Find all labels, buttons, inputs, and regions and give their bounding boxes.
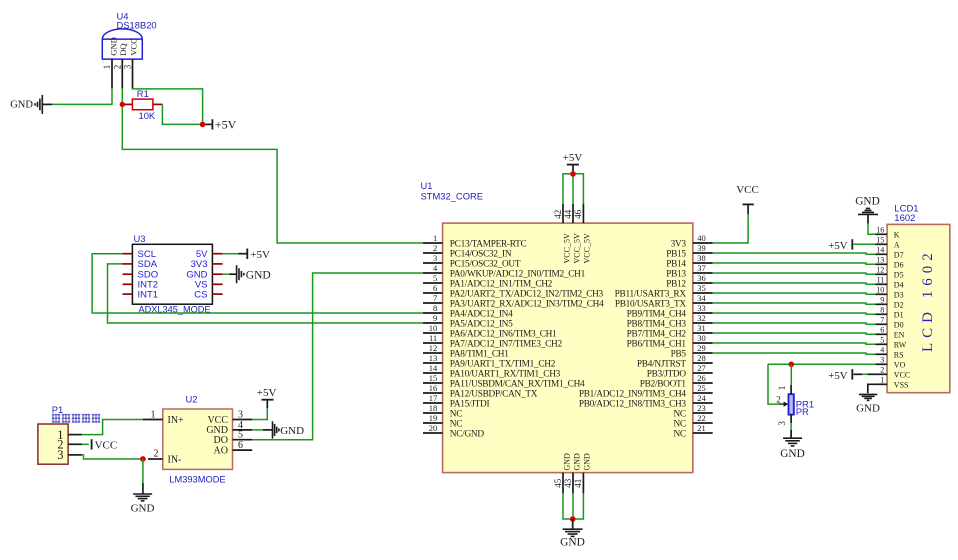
wire U2 DO to U1 pin4 PA0 bbox=[252, 273, 423, 440]
svg-text:GND: GND bbox=[856, 403, 880, 415]
U4 pin 3 bbox=[132, 59, 134, 89]
wire U1 bottom pins to GND rail bbox=[563, 493, 583, 519]
svg-text:VCC: VCC bbox=[894, 370, 910, 379]
U1 pin 36 stub bbox=[693, 282, 713, 284]
svg-text:PA9/UART1_TX/TIM1_CH2: PA9/UART1_TX/TIM1_CH2 bbox=[450, 359, 556, 369]
svg-text:3V3: 3V3 bbox=[671, 239, 687, 249]
svg-text:NC/GND: NC/GND bbox=[450, 429, 485, 439]
LCD1 pin 2 stub bbox=[876, 373, 888, 375]
svg-text:PC14/OSC32_IN: PC14/OSC32_IN bbox=[450, 249, 512, 259]
svg-text:P1: P1 bbox=[52, 404, 63, 415]
svg-text:GND: GND bbox=[780, 448, 804, 460]
U1 pin 35 stub bbox=[693, 292, 713, 294]
U4 pin 1 bbox=[111, 59, 113, 89]
wire U1 pin36 to LCD pin11 bbox=[713, 283, 876, 284]
svg-text:9: 9 bbox=[880, 296, 884, 305]
ground GND (below PR1) bbox=[780, 430, 804, 460]
power VCC (top right) bbox=[736, 184, 759, 214]
svg-text:8: 8 bbox=[880, 306, 884, 315]
svg-text:PB6/TIM4_CH1: PB6/TIM4_CH1 bbox=[627, 339, 687, 349]
svg-text:37: 37 bbox=[697, 263, 706, 273]
junction GND bottom bbox=[570, 516, 576, 522]
svg-text:1: 1 bbox=[777, 386, 787, 391]
svg-text:GND: GND bbox=[855, 196, 879, 208]
svg-text:VCC: VCC bbox=[95, 440, 118, 452]
svg-text:INT1: INT1 bbox=[138, 289, 159, 300]
svg-text:+5V: +5V bbox=[828, 370, 847, 382]
wire VO junction down to PR1 pin1 bbox=[790, 364, 792, 385]
svg-text:RW: RW bbox=[894, 340, 907, 349]
svg-text:40: 40 bbox=[697, 233, 706, 243]
svg-text:14: 14 bbox=[429, 363, 438, 373]
svg-text:R1: R1 bbox=[137, 88, 149, 99]
PR1 pin 1 bbox=[790, 385, 792, 394]
wire R1 right to +5V junction bbox=[162, 104, 200, 124]
LCD1 pin 9 stub bbox=[876, 303, 888, 305]
ground GND (below U1) bbox=[560, 519, 585, 549]
svg-text:VCC_5V: VCC_5V bbox=[562, 233, 571, 263]
svg-text:D2: D2 bbox=[894, 300, 904, 309]
svg-text:33: 33 bbox=[697, 303, 706, 313]
junction DQ / R1 bbox=[120, 102, 125, 107]
U3 pin SDO stub bbox=[123, 273, 133, 275]
svg-text:PB2/BOOT1: PB2/BOOT1 bbox=[640, 379, 687, 389]
U1 pin 29 stub bbox=[693, 352, 713, 354]
sensor U4 DS18B20 bbox=[102, 29, 142, 59]
svg-text:LCD 1602: LCD 1602 bbox=[920, 248, 936, 352]
svg-text:+5V: +5V bbox=[257, 387, 277, 399]
U1 pin 46 (VCC_5V) bbox=[582, 204, 584, 223]
LCD1 pin 1 stub bbox=[876, 383, 888, 385]
svg-text:AO: AO bbox=[214, 445, 228, 456]
svg-text:VCC: VCC bbox=[128, 38, 138, 56]
svg-text:8: 8 bbox=[433, 303, 437, 313]
U1 pin 17 stub bbox=[423, 402, 443, 404]
svg-text:3: 3 bbox=[123, 64, 133, 69]
svg-text:PB12: PB12 bbox=[666, 279, 686, 289]
svg-text:3: 3 bbox=[880, 356, 884, 365]
R1 left lead bbox=[125, 103, 133, 105]
svg-text:29: 29 bbox=[697, 343, 706, 353]
svg-text:+5V: +5V bbox=[215, 118, 237, 132]
svg-text:43: 43 bbox=[563, 478, 573, 488]
svg-text:38: 38 bbox=[697, 253, 706, 263]
wire +5V to LCD pin15 A bbox=[854, 243, 876, 245]
LCD1 pin 3 stub bbox=[876, 363, 888, 365]
svg-text:9: 9 bbox=[433, 313, 437, 323]
svg-text:15: 15 bbox=[876, 236, 884, 245]
ground GND (right of U3) bbox=[229, 265, 271, 283]
U2 pin 6 stub bbox=[233, 449, 253, 451]
U1 pin 41 (GND) bbox=[582, 473, 584, 494]
svg-text:PA5/ADC12_IN5: PA5/ADC12_IN5 bbox=[450, 319, 513, 329]
svg-text:IN+: IN+ bbox=[168, 415, 185, 426]
U2 pin 1 stub bbox=[143, 419, 163, 421]
svg-text:D3: D3 bbox=[894, 290, 904, 299]
power +5V (LCD pin15 A) bbox=[828, 239, 852, 252]
MCU U1 STM32_CORE body bbox=[443, 223, 693, 473]
svg-text:5: 5 bbox=[880, 336, 884, 345]
svg-text:VCC: VCC bbox=[736, 184, 759, 196]
svg-text:42: 42 bbox=[553, 210, 563, 219]
svg-text:PB1/ADC12_IN9/TIM3_CH4: PB1/ADC12_IN9/TIM3_CH4 bbox=[579, 389, 687, 399]
U3 pin GND stub bbox=[212, 273, 222, 275]
svg-text:41: 41 bbox=[573, 479, 583, 488]
P1 pin 3 stub bbox=[68, 454, 82, 456]
LCD1 pin 16 stub bbox=[876, 233, 888, 235]
wire U1 pin31 to LCD pin6 bbox=[713, 333, 876, 334]
PR1 wiper arrow bbox=[779, 402, 788, 407]
wire U1 pin32 to LCD pin7 bbox=[713, 323, 876, 324]
R1 right lead bbox=[153, 103, 163, 105]
svg-text:4: 4 bbox=[880, 346, 884, 355]
svg-text:1602: 1602 bbox=[894, 213, 915, 224]
U1 pin 7 stub bbox=[423, 302, 443, 304]
wire P1 pin1 to U2 IN+ bbox=[82, 420, 143, 435]
svg-text:16: 16 bbox=[876, 226, 884, 235]
svg-text:+5V: +5V bbox=[250, 249, 270, 261]
wire U3 5V to +5V bbox=[223, 253, 239, 255]
svg-text:12: 12 bbox=[429, 343, 438, 353]
power +5V (LCD pin2 VCC) bbox=[828, 369, 862, 382]
svg-text:PA12/USBDP/CAN_TX: PA12/USBDP/CAN_TX bbox=[450, 389, 538, 399]
svg-text:3: 3 bbox=[777, 421, 787, 426]
svg-text:12: 12 bbox=[876, 266, 884, 275]
U3 pin SDA stub bbox=[123, 263, 133, 265]
U1 pin 4 stub bbox=[423, 272, 443, 274]
svg-text:VCC: VCC bbox=[207, 415, 228, 426]
svg-text:32: 32 bbox=[697, 313, 706, 323]
svg-text:PB10/USART3_TX: PB10/USART3_TX bbox=[615, 299, 687, 309]
svg-text:GND: GND bbox=[280, 425, 304, 437]
U1 pin 21 stub bbox=[693, 432, 713, 434]
svg-text:34: 34 bbox=[697, 293, 706, 303]
svg-text:10K: 10K bbox=[139, 110, 156, 121]
svg-text:VSS: VSS bbox=[894, 380, 909, 389]
svg-text:7: 7 bbox=[433, 293, 437, 303]
svg-text:36: 36 bbox=[697, 273, 706, 283]
svg-text:PB15: PB15 bbox=[666, 249, 686, 259]
U1 pin 9 stub bbox=[423, 322, 443, 324]
wire LCD pin3 VO to PR1 bbox=[768, 363, 876, 365]
svg-text:1: 1 bbox=[102, 65, 112, 70]
power VCC (right of P1) bbox=[92, 439, 118, 451]
svg-text:19: 19 bbox=[429, 413, 438, 423]
U3 pin INT2 stub bbox=[123, 283, 133, 285]
svg-text:GND: GND bbox=[583, 453, 592, 471]
U1 pin 2 stub bbox=[423, 252, 443, 254]
svg-text:D0: D0 bbox=[894, 320, 904, 329]
svg-text:PB9/TIM4_CH4: PB9/TIM4_CH4 bbox=[627, 309, 687, 319]
U1 pin 39 stub bbox=[693, 252, 713, 254]
svg-text:20: 20 bbox=[429, 423, 438, 433]
svg-text:NC: NC bbox=[450, 419, 462, 429]
U2 pin 4 stub bbox=[233, 429, 253, 431]
svg-text:2: 2 bbox=[154, 448, 159, 459]
svg-text:GND: GND bbox=[562, 453, 571, 471]
svg-text:DS18B20: DS18B20 bbox=[117, 19, 157, 30]
ground GND (left of U4) bbox=[10, 95, 52, 114]
svg-text:RS: RS bbox=[894, 350, 904, 359]
wire P1 pin2 to VCC bbox=[82, 443, 89, 445]
svg-text:23: 23 bbox=[697, 403, 706, 413]
svg-text:PA3/UART2_RX/ADC12_IN3/TIM2_CH: PA3/UART2_RX/ADC12_IN3/TIM2_CH4 bbox=[450, 299, 604, 309]
U1 pin 10 stub bbox=[423, 332, 443, 334]
LCD1 pin 7 stub bbox=[876, 323, 888, 325]
U3 pin 5V stub bbox=[212, 253, 222, 255]
svg-text:2: 2 bbox=[433, 243, 437, 253]
U1 pin 26 stub bbox=[693, 382, 713, 384]
U3 pin 3V3 stub bbox=[212, 263, 222, 265]
svg-text:3: 3 bbox=[57, 448, 63, 462]
svg-text:6: 6 bbox=[238, 440, 243, 451]
svg-text:26: 26 bbox=[697, 373, 706, 383]
svg-text:PA1/ADC12_IN1/TIM_CH2: PA1/ADC12_IN1/TIM_CH2 bbox=[450, 279, 553, 289]
svg-text:GND: GND bbox=[131, 502, 155, 514]
wire +5V to LCD pin2 VCC bbox=[862, 373, 868, 375]
svg-text:31: 31 bbox=[697, 323, 706, 333]
svg-text:LM393MODE: LM393MODE bbox=[169, 475, 225, 485]
svg-text:27: 27 bbox=[697, 363, 706, 373]
svg-text:NC: NC bbox=[673, 409, 685, 419]
svg-text:PA4/ADC12_IN4: PA4/ADC12_IN4 bbox=[450, 309, 513, 319]
svg-text:35: 35 bbox=[697, 283, 706, 293]
svg-text:GND: GND bbox=[10, 100, 33, 111]
wire U3 SDA to U1 pin9 PA5 bbox=[108, 264, 424, 323]
svg-text:30: 30 bbox=[697, 333, 706, 343]
LCD1 pin 15 stub bbox=[876, 243, 888, 245]
U1 pin 23 stub bbox=[693, 412, 713, 414]
potentiometer PR1 body bbox=[789, 394, 794, 414]
ground GND (below P1 junction) bbox=[131, 483, 155, 514]
svg-text:6: 6 bbox=[880, 326, 884, 335]
svg-text:5: 5 bbox=[433, 273, 437, 283]
wire junction down to ground bbox=[142, 459, 144, 483]
svg-text:PB14: PB14 bbox=[666, 259, 686, 269]
wire U4 pin3 VCC to +5V bbox=[133, 89, 203, 125]
svg-text:28: 28 bbox=[697, 353, 706, 363]
U1 pin 44 (VCC_5V) bbox=[572, 204, 574, 223]
U1 pin 5 stub bbox=[423, 282, 443, 284]
wire LCD pin1 VSS to GND bbox=[868, 384, 876, 393]
wire U1 pin37 to LCD pin12 bbox=[713, 273, 876, 274]
svg-text:11: 11 bbox=[877, 276, 885, 285]
wire U4 pin2 DQ down through junction to U1 pin1 PC13 bbox=[122, 89, 423, 243]
LCD1 pin 5 stub bbox=[876, 343, 888, 345]
svg-text:46: 46 bbox=[573, 209, 583, 219]
svg-text:1: 1 bbox=[433, 233, 437, 243]
U1 pin 11 stub bbox=[423, 342, 443, 344]
comparator U2 LM393MODE body bbox=[163, 409, 233, 469]
P1 pin 2 stub bbox=[68, 443, 82, 445]
wire U1 pin35 to LCD pin10 bbox=[713, 293, 876, 294]
svg-text:CS: CS bbox=[194, 289, 207, 300]
power +5V (right of R1) bbox=[205, 118, 236, 132]
svg-text:U2: U2 bbox=[186, 394, 198, 405]
wire U1 pin33 to LCD pin8 bbox=[713, 313, 876, 314]
op-amp U3 ADXL345_MODE body bbox=[132, 244, 212, 304]
svg-text:22: 22 bbox=[697, 413, 706, 423]
svg-text:PB13: PB13 bbox=[666, 269, 686, 279]
wire +5V center drop bbox=[572, 171, 574, 204]
svg-text:25: 25 bbox=[697, 383, 706, 393]
U1 pin 1 stub bbox=[423, 242, 443, 244]
svg-text:13: 13 bbox=[429, 353, 438, 363]
PR1 pin 3 bbox=[790, 415, 792, 424]
svg-text:15: 15 bbox=[429, 373, 438, 383]
svg-text:1: 1 bbox=[151, 409, 156, 420]
svg-text:NC: NC bbox=[450, 409, 462, 419]
svg-text:PC15/OSC32_OUT: PC15/OSC32_OUT bbox=[450, 259, 521, 269]
LCD1 pin 11 stub bbox=[876, 283, 888, 285]
wire U1 pin39 to LCD pin14 bbox=[713, 253, 876, 254]
U1 pin 32 stub bbox=[693, 322, 713, 324]
svg-text:PB8/TIM4_CH3: PB8/TIM4_CH3 bbox=[627, 319, 687, 329]
svg-text:STM32_CORE: STM32_CORE bbox=[421, 191, 484, 202]
wire PR1 wiper loop bbox=[768, 364, 779, 404]
svg-text:PB7/TIM4_CH2: PB7/TIM4_CH2 bbox=[627, 329, 687, 339]
wire GND center drop bbox=[572, 493, 574, 519]
svg-text:1: 1 bbox=[880, 376, 884, 385]
svg-text:5: 5 bbox=[238, 430, 243, 441]
junction IN- node bbox=[140, 456, 146, 462]
svg-text:K: K bbox=[894, 230, 900, 239]
wire P1 pin3 to IN- junction bbox=[82, 455, 140, 459]
wire U2 GND pin bbox=[252, 429, 263, 431]
svg-text:21: 21 bbox=[697, 423, 706, 433]
U1 pin 33 stub bbox=[693, 312, 713, 314]
U3 pin SCL stub bbox=[123, 253, 133, 255]
U1 pin 27 stub bbox=[693, 372, 713, 374]
junction +5V top bbox=[570, 171, 576, 177]
wire U2 VCC to +5V bbox=[252, 408, 267, 419]
svg-text:A: A bbox=[894, 240, 900, 249]
LCD1 pin 10 stub bbox=[876, 293, 888, 295]
U1 pin 37 stub bbox=[693, 272, 713, 274]
wire +5V rail to U1 top pins bbox=[563, 174, 583, 204]
svg-text:39: 39 bbox=[697, 243, 706, 253]
svg-text:6: 6 bbox=[433, 283, 437, 293]
wire U3 GND pin bbox=[223, 273, 230, 275]
svg-text:PA2/UART2_TX/ADC12_IN2/TIM2_CH: PA2/UART2_TX/ADC12_IN2/TIM2_CH3 bbox=[450, 289, 604, 299]
wire LCD pin16 K to GND bbox=[868, 224, 876, 235]
wire U3 SCL to U1 pin8 PA4 bbox=[92, 254, 423, 313]
U1 pin 3 stub bbox=[423, 262, 443, 264]
svg-text:PA11/USBDM/CAN_RX/TIM1_CH4: PA11/USBDM/CAN_RX/TIM1_CH4 bbox=[450, 379, 585, 389]
LCD1 pin 14 stub bbox=[876, 253, 888, 255]
U1 pin 12 stub bbox=[423, 352, 443, 354]
svg-text:PC13/TAMPER-RTC: PC13/TAMPER-RTC bbox=[450, 239, 527, 249]
svg-text:PB11/USART3_RX: PB11/USART3_RX bbox=[615, 289, 687, 299]
svg-text:7: 7 bbox=[880, 316, 884, 325]
svg-text:NC: NC bbox=[673, 429, 685, 439]
U1 pin 15 stub bbox=[423, 382, 443, 384]
U1 pin 25 stub bbox=[693, 392, 713, 394]
U1 pin 6 stub bbox=[423, 292, 443, 294]
U1 pin 40 stub bbox=[693, 242, 713, 244]
LCD1 pin 6 stub bbox=[876, 333, 888, 335]
ground GND (right of U2) bbox=[263, 421, 304, 438]
svg-text:18: 18 bbox=[429, 403, 438, 413]
wire U1 pin30 to LCD pin5 bbox=[713, 343, 876, 344]
svg-text:PA10/UART1_RX/TIM1_CH3: PA10/UART1_RX/TIM1_CH3 bbox=[450, 369, 561, 379]
wire U1 pin38 to LCD pin13 bbox=[713, 263, 876, 264]
svg-text:10: 10 bbox=[876, 286, 884, 295]
svg-text:PA8/TIM1_CH1: PA8/TIM1_CH1 bbox=[450, 349, 509, 359]
svg-text:PA0/WKUP/ADC12_IN0/TIM2_CH1: PA0/WKUP/ADC12_IN0/TIM2_CH1 bbox=[450, 269, 586, 279]
connector P1 body bbox=[38, 424, 68, 464]
U1 pin 43 (GND) bbox=[572, 473, 574, 494]
U3 pin CS stub bbox=[212, 293, 222, 295]
svg-text:PB3/JTDO: PB3/JTDO bbox=[647, 369, 687, 379]
U2 pin 3 stub bbox=[233, 419, 253, 421]
svg-text:PA6/ADC12_IN6/TIM3_CH1: PA6/ADC12_IN6/TIM3_CH1 bbox=[450, 329, 557, 339]
display LCD1 1602 body bbox=[887, 224, 950, 392]
svg-text:VCC_5V: VCC_5V bbox=[572, 233, 581, 263]
wire LCD pin2 black segment bbox=[868, 373, 876, 375]
svg-text:GND: GND bbox=[246, 269, 271, 281]
svg-text:PB5: PB5 bbox=[671, 349, 687, 359]
wire U1 pin34 to LCD pin9 bbox=[713, 303, 876, 304]
U1 pin 20 stub bbox=[423, 432, 443, 434]
svg-text:PB0/ADC12_IN8/TIM3_CH3: PB0/ADC12_IN8/TIM3_CH3 bbox=[579, 399, 687, 409]
U1 pin 22 stub bbox=[693, 422, 713, 424]
svg-text:D1: D1 bbox=[894, 310, 904, 319]
U1 pin 13 stub bbox=[423, 362, 443, 364]
svg-text:14: 14 bbox=[876, 246, 884, 255]
svg-text:45: 45 bbox=[553, 478, 563, 488]
U1 pin 31 stub bbox=[693, 332, 713, 334]
U1 pin 24 stub bbox=[693, 402, 713, 404]
svg-text:+5V: +5V bbox=[828, 240, 847, 252]
U1 pin 42 (VCC_5V) bbox=[562, 204, 564, 223]
svg-text:PB4/NJTRST: PB4/NJTRST bbox=[637, 359, 686, 369]
svg-text:4: 4 bbox=[433, 263, 438, 273]
wire U1 pin29 to LCD pin4 bbox=[713, 353, 876, 354]
svg-text:EN: EN bbox=[894, 330, 905, 339]
U1 pin 16 stub bbox=[423, 392, 443, 394]
U1 pin 45 (GND) bbox=[562, 473, 564, 494]
LCD1 pin 12 stub bbox=[876, 273, 888, 275]
wire U1 pin40 3V3 to VCC bbox=[713, 214, 748, 243]
U1 pin 28 stub bbox=[693, 362, 713, 364]
svg-text:3: 3 bbox=[238, 410, 243, 421]
svg-text:D6: D6 bbox=[894, 260, 904, 269]
junction VO / PR1 bbox=[789, 362, 795, 368]
LCD1 pin 13 stub bbox=[876, 263, 888, 265]
U2 pin 5 stub bbox=[233, 439, 253, 441]
svg-text:IN-: IN- bbox=[168, 455, 182, 466]
LCD1 pin 8 stub bbox=[876, 313, 888, 315]
LCD1 pin 4 stub bbox=[876, 353, 888, 355]
svg-text:DO: DO bbox=[214, 435, 228, 446]
svg-text:44: 44 bbox=[563, 209, 573, 219]
ground GND (below LCD) bbox=[856, 394, 880, 414]
svg-text:VO: VO bbox=[894, 360, 906, 369]
svg-text:2: 2 bbox=[112, 65, 122, 70]
svg-text:GND: GND bbox=[572, 453, 581, 471]
svg-text:VCC_5V: VCC_5V bbox=[583, 233, 592, 263]
U2 pin 2 stub bbox=[148, 458, 163, 460]
junction +5V node bbox=[200, 122, 206, 128]
svg-text:10: 10 bbox=[429, 323, 438, 333]
P1 pin 1 stub bbox=[68, 434, 82, 436]
svg-text:DQ: DQ bbox=[118, 43, 128, 56]
svg-text:D7: D7 bbox=[894, 250, 904, 259]
U1 pin 19 stub bbox=[423, 422, 443, 424]
U3 pin INT1 stub bbox=[123, 293, 133, 295]
wire GND to U4 pin1 bbox=[52, 89, 112, 105]
